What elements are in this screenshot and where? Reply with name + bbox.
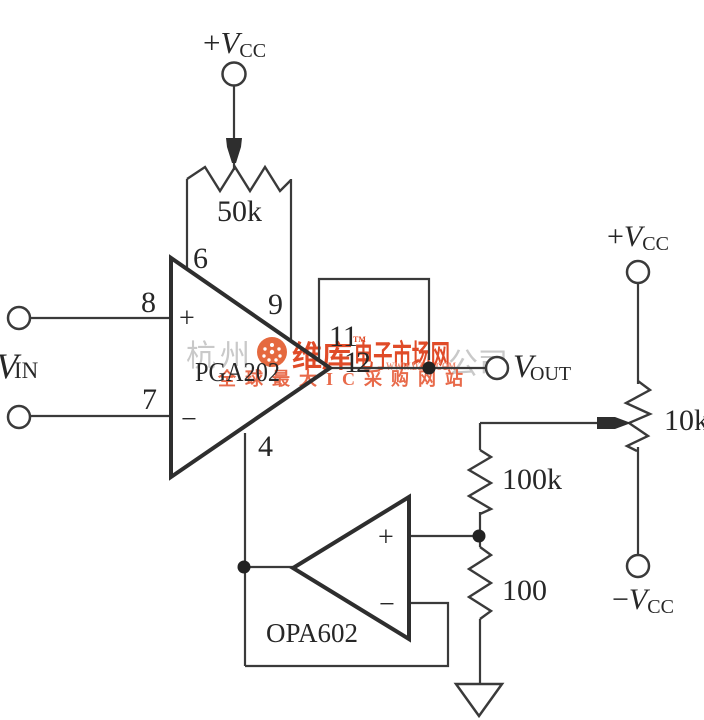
svg-text:9: 9 xyxy=(268,288,283,321)
wire 100k to 100 xyxy=(479,512,481,547)
potentiometer 10k wiper arrow xyxy=(597,417,631,429)
wire 100 to ground xyxy=(479,619,481,684)
potentiometer 10k resistor body xyxy=(626,381,650,451)
wire arrow tip to 50k xyxy=(233,158,235,170)
wire pin 4 down xyxy=(244,433,246,666)
wire 50k left to pin 6 xyxy=(186,179,188,268)
wire 50k right to pin 9 xyxy=(290,179,292,342)
wire OPA602 + input xyxy=(409,535,478,537)
svg-text:8: 8 xyxy=(141,286,156,319)
svg-text:100k: 100k xyxy=(502,463,562,496)
wire 10k to -Vcc xyxy=(637,447,639,555)
op-amp U2 OPA602 xyxy=(293,497,409,639)
wire +Vcc to arrow xyxy=(233,86,235,140)
svg-text:10k: 10k xyxy=(664,404,704,437)
terminal input pin 8 xyxy=(8,307,30,329)
terminal +Vcc right xyxy=(627,261,649,283)
wire 100k top horizontal xyxy=(480,422,601,424)
terminal input pin 7 xyxy=(8,406,30,428)
wire junction to OPA602 output xyxy=(244,566,295,568)
terminal -Vcc right xyxy=(627,555,649,577)
resistor 100 xyxy=(469,547,491,619)
wire 100k top vertical xyxy=(479,423,481,450)
svg-text:PGA202: PGA202 xyxy=(195,357,280,387)
svg-text:OPA602: OPA602 xyxy=(266,618,358,648)
svg-text:7: 7 xyxy=(142,383,157,416)
svg-text:4: 4 xyxy=(258,430,273,463)
wire pin 11 feedback loop xyxy=(319,279,429,360)
svg-text:+: + xyxy=(378,522,394,553)
svg-text:100: 100 xyxy=(502,574,547,607)
svg-text:50k: 50k xyxy=(217,195,262,228)
junction pin12 output xyxy=(423,362,436,375)
svg-text:12: 12 xyxy=(344,346,370,379)
terminal Vout xyxy=(486,357,508,379)
svg-text:6: 6 xyxy=(193,242,208,275)
svg-text:−: − xyxy=(181,404,197,435)
wire output to Vout xyxy=(330,367,486,369)
resistor 100k xyxy=(469,450,491,514)
svg-text:+: + xyxy=(179,303,195,334)
wire input pin 7 xyxy=(30,415,171,417)
arrow from +Vcc into 50k xyxy=(226,138,242,163)
watermark xyxy=(186,335,508,389)
wire input pin 8 xyxy=(30,317,171,319)
junction 100k/100 xyxy=(473,530,486,543)
junction pin4 / OPA output xyxy=(238,561,251,574)
op-amp U1 PGA202 xyxy=(171,258,330,477)
wire feedback OPA602 xyxy=(245,603,448,666)
ground xyxy=(456,684,502,716)
svg-text:OUT: OUT xyxy=(530,363,571,385)
resistor 50k xyxy=(187,167,291,191)
terminal +Vcc top xyxy=(223,63,246,86)
svg-text:−: − xyxy=(379,589,395,620)
svg-text:IN: IN xyxy=(14,358,39,383)
wire +Vcc to 10k xyxy=(637,283,639,384)
